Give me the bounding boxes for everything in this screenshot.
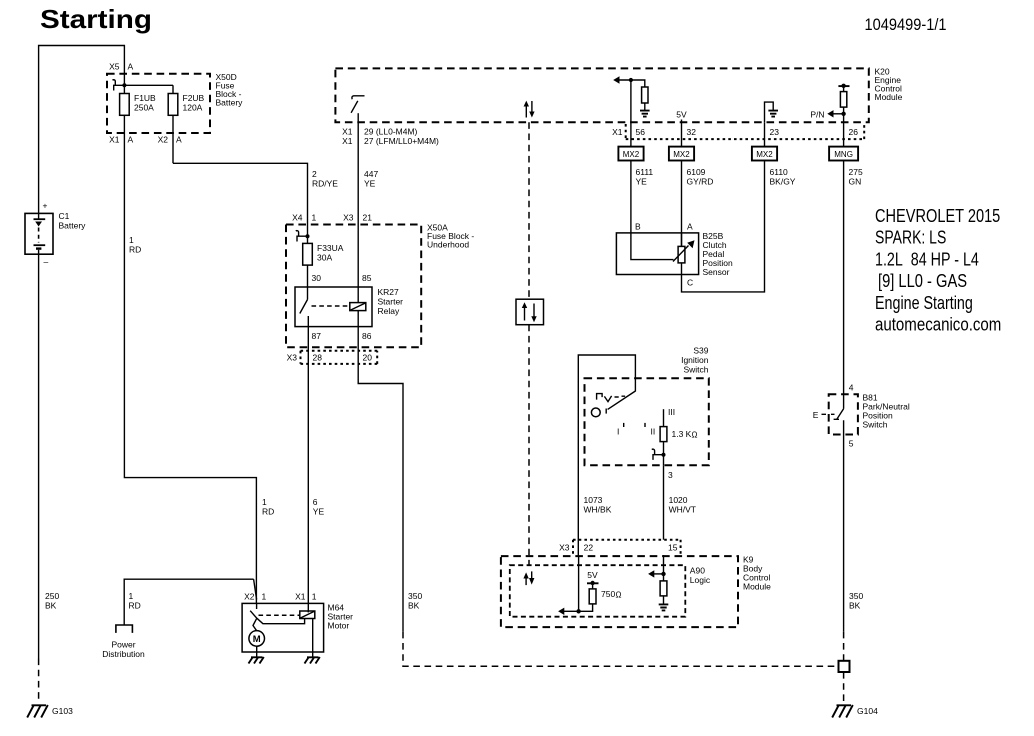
svg-text:MX2: MX2 bbox=[673, 150, 690, 159]
svg-text:5V: 5V bbox=[587, 570, 598, 580]
BCM K9 dashed box bbox=[501, 556, 738, 627]
A90 Logic inner dashed box bbox=[510, 565, 686, 617]
ECM pin 26 pull-up resistor and P/N output bbox=[810, 84, 849, 123]
svg-text:1: 1 bbox=[312, 213, 317, 223]
svg-text:M: M bbox=[253, 634, 261, 645]
relay contact bbox=[300, 287, 309, 327]
resistor 1.3 KΩ bbox=[660, 409, 697, 465]
svg-text:3: 3 bbox=[668, 470, 673, 480]
svg-text:S39: S39 bbox=[693, 346, 708, 356]
svg-text:20: 20 bbox=[363, 353, 373, 363]
ECM pin 56 pull-down resistor and ground bbox=[613, 76, 649, 122]
contact to solenoid link bbox=[257, 618, 305, 624]
svg-text:F1UB: F1UB bbox=[134, 93, 156, 103]
pin 23 bbox=[764, 122, 766, 146]
svg-text:RD: RD bbox=[129, 245, 141, 255]
svg-text:5V: 5V bbox=[676, 110, 687, 120]
svg-text:Battery: Battery bbox=[216, 98, 244, 108]
svg-text:1: 1 bbox=[262, 592, 267, 602]
svg-text:28: 28 bbox=[313, 353, 323, 363]
junction bbox=[662, 453, 666, 457]
svg-text:Switch: Switch bbox=[683, 365, 708, 375]
BCM pin 15 input: pull-down to ground bbox=[648, 555, 668, 610]
svg-text:YE: YE bbox=[313, 507, 325, 517]
svg-text:A: A bbox=[128, 135, 134, 145]
svg-text:Distribution: Distribution bbox=[102, 649, 145, 659]
svg-text:F33UA: F33UA bbox=[317, 243, 344, 253]
svg-text:87: 87 bbox=[312, 331, 322, 341]
rotor contact circle bbox=[591, 408, 600, 417]
solenoid coil bbox=[300, 611, 315, 652]
svg-text:21: 21 bbox=[363, 213, 373, 223]
svg-text:X1: X1 bbox=[295, 592, 306, 602]
svg-text:F2UB: F2UB bbox=[183, 93, 205, 103]
pin 20 bbox=[357, 327, 359, 369]
svg-text:1073: 1073 bbox=[584, 495, 603, 505]
svg-text:Sensor: Sensor bbox=[703, 267, 730, 277]
svg-text:BK: BK bbox=[45, 601, 57, 611]
svg-text:6109: 6109 bbox=[687, 167, 706, 177]
svg-text:85: 85 bbox=[362, 273, 372, 283]
svg-text:1: 1 bbox=[129, 591, 134, 601]
pin 32 bbox=[681, 122, 683, 146]
svg-text:GN: GN bbox=[849, 177, 862, 187]
svg-text:SPARK: LS: SPARK: LS bbox=[875, 228, 946, 248]
svg-text:Motor: Motor bbox=[328, 621, 350, 631]
svg-text:I: I bbox=[617, 427, 619, 437]
svg-text:Starter: Starter bbox=[378, 297, 404, 307]
wire coil feed bbox=[357, 224, 359, 287]
wire 1020 WH/VT bbox=[663, 465, 665, 539]
fuse F2UB 120A bbox=[168, 94, 178, 116]
svg-text:YE: YE bbox=[364, 179, 376, 189]
off-page connector Power Distribution bbox=[116, 625, 132, 633]
svg-text:1: 1 bbox=[312, 592, 317, 602]
terminal hook bbox=[113, 80, 125, 91]
svg-text:BK/GY: BK/GY bbox=[770, 177, 796, 187]
svg-text:275: 275 bbox=[849, 167, 863, 177]
svg-text:[9] LL0 - GAS: [9] LL0 - GAS bbox=[878, 271, 967, 291]
svg-text:–: – bbox=[44, 257, 49, 267]
connector MX2 pin 56 bbox=[618, 147, 643, 161]
ECM internal driver switch pins 29/27 bbox=[351, 96, 364, 123]
svg-text:750: 750 bbox=[601, 589, 615, 599]
vehicle info text block bbox=[875, 206, 1001, 335]
svg-text:X1: X1 bbox=[342, 136, 353, 146]
svg-text:Battery: Battery bbox=[59, 221, 87, 231]
ground below motor bbox=[249, 652, 264, 664]
terminal hook bbox=[652, 449, 664, 460]
svg-text:Starting: Starting bbox=[40, 4, 152, 34]
ECM connector X1 dotted row bbox=[612, 123, 864, 140]
sensor B25B box bbox=[616, 233, 698, 275]
serial data dashed wire lower bbox=[528, 325, 530, 566]
svg-text:G104: G104 bbox=[857, 706, 878, 716]
connector MX2 pin 32 bbox=[669, 147, 694, 161]
svg-text:1.3 K: 1.3 K bbox=[672, 429, 692, 439]
svg-text:447: 447 bbox=[364, 169, 378, 179]
svg-text:X5: X5 bbox=[109, 62, 120, 72]
wire 275 GN bbox=[843, 161, 845, 395]
position I bbox=[623, 423, 625, 427]
svg-text:Ω: Ω bbox=[692, 431, 698, 440]
svg-text:KR27: KR27 bbox=[378, 287, 400, 297]
wire through fuses bbox=[123, 73, 125, 133]
node X1 29/27 bbox=[342, 122, 439, 146]
wire dashed to G103 bbox=[38, 659, 40, 702]
detent marks bbox=[597, 394, 603, 400]
svg-text:26: 26 bbox=[849, 127, 859, 137]
svg-text:Switch: Switch bbox=[863, 420, 888, 430]
svg-text:C: C bbox=[687, 278, 693, 288]
svg-text:Module: Module bbox=[875, 92, 903, 102]
relay linkage dashed bbox=[312, 305, 350, 307]
svg-text:X3: X3 bbox=[287, 353, 298, 363]
svg-text:X3: X3 bbox=[343, 213, 354, 223]
ground G104 bbox=[832, 705, 853, 718]
wire to F2UB bbox=[124, 84, 173, 86]
svg-text:56: 56 bbox=[636, 127, 646, 137]
fuse F1UB 250A bbox=[120, 94, 130, 116]
serial data arrows in BCM bbox=[523, 571, 534, 585]
pin 28 bbox=[307, 327, 309, 369]
wire relay coil ground 350 BK bbox=[358, 369, 403, 632]
sensor internal wiper wire bbox=[631, 233, 674, 260]
relay KR27 box bbox=[295, 287, 372, 327]
wire F2UB output 2 RD/YE bbox=[173, 163, 308, 224]
svg-text:X4: X4 bbox=[292, 213, 303, 223]
svg-text:Power: Power bbox=[111, 640, 135, 650]
ground below solenoid bbox=[305, 652, 320, 664]
svg-text:Relay: Relay bbox=[378, 306, 400, 316]
serial data arrows at ECM bbox=[524, 101, 535, 118]
svg-text:G103: G103 bbox=[52, 706, 73, 716]
wire 6111 YE bbox=[630, 161, 632, 233]
svg-text:5: 5 bbox=[849, 439, 854, 449]
svg-text:WH/BK: WH/BK bbox=[584, 505, 612, 515]
svg-text:Module: Module bbox=[743, 582, 771, 592]
svg-text:15: 15 bbox=[668, 543, 678, 553]
svg-text:250A: 250A bbox=[134, 103, 154, 113]
fuse block X50D dashed box bbox=[107, 74, 210, 133]
svg-text:A: A bbox=[128, 62, 134, 72]
pin 56 bbox=[630, 122, 632, 146]
wire 6 YE relay output to starter bbox=[307, 369, 309, 612]
svg-text:A90: A90 bbox=[690, 566, 705, 576]
connector MX2 pin 23 bbox=[752, 147, 777, 161]
wire battery positive to fuse block X50D bbox=[39, 46, 125, 214]
svg-text:120A: 120A bbox=[183, 103, 203, 113]
svg-text:1.2L 84 HP - L4: 1.2L 84 HP - L4 bbox=[875, 249, 979, 269]
wire 447 YE bbox=[357, 146, 359, 224]
dashed wire to G104 bbox=[843, 672, 845, 701]
wire 350 BK right bbox=[843, 435, 845, 632]
svg-text:30A: 30A bbox=[317, 253, 332, 263]
svg-text:1020: 1020 bbox=[669, 495, 688, 505]
svg-text:X1: X1 bbox=[109, 135, 120, 145]
connector MNG pin 26 bbox=[829, 147, 858, 161]
svg-text:Ω: Ω bbox=[616, 591, 622, 600]
svg-text:WH/VT: WH/VT bbox=[669, 505, 696, 515]
svg-text:1: 1 bbox=[129, 235, 134, 245]
wire battery negative 250 BK bbox=[38, 254, 40, 658]
svg-text:350: 350 bbox=[849, 591, 863, 601]
svg-text:+: + bbox=[43, 201, 48, 211]
motor M bbox=[249, 631, 265, 652]
svg-text:30: 30 bbox=[312, 273, 322, 283]
junction bbox=[306, 234, 310, 238]
pot wire A to C bbox=[681, 233, 683, 275]
svg-text:Engine Starting: Engine Starting bbox=[875, 293, 973, 313]
splice square bbox=[839, 661, 850, 672]
serial data dashed wire bbox=[528, 122, 530, 299]
svg-text:2: 2 bbox=[312, 169, 317, 179]
fuse F33UA 30A bbox=[307, 224, 309, 243]
dashed wire to splice bbox=[403, 632, 838, 667]
svg-text:E: E bbox=[813, 410, 819, 420]
svg-text:BK: BK bbox=[849, 601, 861, 611]
svg-text:MX2: MX2 bbox=[623, 150, 640, 159]
solenoid contact bbox=[250, 603, 257, 630]
svg-text:III: III bbox=[668, 407, 675, 417]
svg-text:Logic: Logic bbox=[690, 575, 711, 585]
wire F1UB output 1 RD bbox=[124, 133, 256, 603]
svg-text:II: II bbox=[651, 427, 656, 437]
svg-text:6111: 6111 bbox=[636, 167, 654, 177]
svg-text:C1: C1 bbox=[59, 211, 70, 221]
BCM pin 22 input: 5V pull-up 750 ohm bbox=[558, 556, 621, 615]
solenoid linkage dashed bbox=[259, 614, 300, 616]
svg-text:32: 32 bbox=[687, 127, 697, 137]
svg-text:P/N: P/N bbox=[810, 109, 824, 119]
svg-text:RD: RD bbox=[129, 601, 141, 611]
ECM pin 23 internal ground bbox=[765, 102, 779, 122]
svg-text:MNG: MNG bbox=[834, 150, 853, 159]
serial data symbol box bbox=[516, 299, 544, 325]
svg-text:86: 86 bbox=[362, 331, 372, 341]
svg-text:A: A bbox=[687, 222, 693, 232]
svg-text:250: 250 bbox=[45, 591, 59, 601]
BCM X3 connector dotted row bbox=[559, 540, 681, 555]
svg-text:350: 350 bbox=[408, 591, 422, 601]
svg-text:1049499-1/1: 1049499-1/1 bbox=[865, 16, 947, 34]
wire 6109 GY/RD bbox=[681, 161, 683, 247]
svg-text:6110: 6110 bbox=[770, 167, 789, 177]
svg-text:A: A bbox=[176, 135, 182, 145]
svg-text:BK: BK bbox=[408, 601, 420, 611]
relay coil bbox=[350, 287, 366, 327]
svg-text:X1: X1 bbox=[612, 127, 623, 137]
potentiometer element bbox=[673, 240, 695, 263]
svg-text:1: 1 bbox=[262, 497, 267, 507]
svg-text:Ignition: Ignition bbox=[681, 355, 709, 365]
svg-text:6: 6 bbox=[313, 497, 318, 507]
ignition switch S39 dashed box bbox=[585, 378, 709, 465]
pin 22 bbox=[577, 554, 579, 557]
svg-text:B: B bbox=[635, 222, 641, 232]
svg-text:Underhood: Underhood bbox=[427, 240, 469, 250]
svg-text:CHEVROLET 2015: CHEVROLET 2015 bbox=[875, 206, 1000, 226]
svg-text:automecanico.com: automecanico.com bbox=[875, 315, 1001, 335]
fuse block X50A dashed box bbox=[286, 225, 421, 348]
svg-text:22: 22 bbox=[584, 543, 594, 553]
starter motor M64 box bbox=[242, 603, 324, 652]
position II bbox=[644, 423, 646, 427]
svg-text:X3: X3 bbox=[559, 543, 570, 553]
terminal hook bbox=[296, 231, 308, 242]
ECM K20 dashed box bbox=[335, 68, 868, 122]
svg-text:23: 23 bbox=[770, 127, 780, 137]
svg-text:YE: YE bbox=[636, 177, 648, 187]
battery C1 bbox=[25, 201, 53, 267]
wire 6110 BK/GY bbox=[682, 161, 765, 292]
svg-text:MX2: MX2 bbox=[756, 150, 773, 159]
svg-text:4: 4 bbox=[849, 383, 854, 393]
svg-text:27 (LFM/LL0+M4M): 27 (LFM/LL0+M4M) bbox=[364, 136, 439, 146]
svg-text:X2: X2 bbox=[158, 135, 169, 145]
switch body outline bbox=[578, 355, 635, 554]
svg-text:RD: RD bbox=[262, 507, 274, 517]
ground G103 bbox=[27, 705, 48, 718]
svg-text:RD/YE: RD/YE bbox=[312, 179, 338, 189]
svg-text:GY/RD: GY/RD bbox=[687, 177, 714, 187]
svg-text:X2: X2 bbox=[244, 592, 255, 602]
dashed wire to splice bbox=[843, 632, 845, 661]
junction bbox=[122, 83, 126, 87]
wire to power distribution bbox=[124, 579, 253, 625]
X3 connector dotted row bbox=[287, 351, 378, 364]
switch contact bbox=[834, 394, 844, 434]
pin 26 bbox=[843, 122, 845, 146]
